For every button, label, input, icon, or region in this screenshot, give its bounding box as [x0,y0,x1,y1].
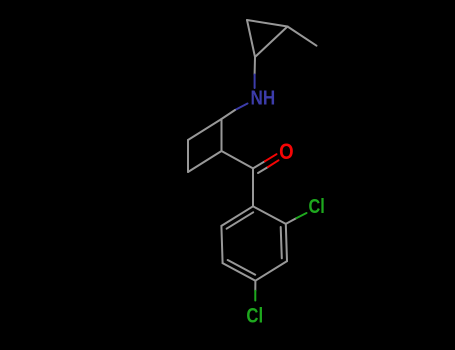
bond N-C1 (gray half) [254,57,256,75]
svg-text:O: O [279,139,294,164]
aromatic inner line A6-A1 [227,212,254,228]
svg-text:NH: NH [251,86,276,109]
bond A2-Cl1 (gray half) [286,218,297,224]
cyclobutane bond R2-R3 [187,140,189,172]
C7=O second line (gray half) [258,167,268,173]
benzene edge A4-A5 [223,263,256,281]
cyclobutane bond C6-R1 [221,119,223,151]
aromatic inner line A2-A3 [281,227,282,258]
svg-text:Cl: Cl [246,303,263,327]
benzene edge A1-A2 [253,206,286,224]
cyclobutane bond R1-R2 [188,119,222,140]
svg-text:Cl: Cl [309,195,325,218]
benzene edge A5-A6 [221,226,222,263]
bond A4-Cl2 (green half) [254,291,256,301]
cyclobutane bond R3-C6 [188,151,222,172]
C7=O main line (gray half) [253,161,265,168]
bond N-R1 (blue half) [235,104,248,111]
cyclopropane bond C2-C3 [247,20,288,27]
benzene edge A3-A4 [255,261,287,281]
bond C6-C7 [222,151,254,168]
bond A4-Cl2 (gray half) [254,281,256,291]
bond C7-A1 to benzene ring [252,168,254,206]
aromatic inner line A4-A5 [228,260,256,275]
cyclopropane bond C1-C2 [247,20,255,57]
C7=O main line (red half) [265,154,277,161]
C7=O second line (red half) [268,160,279,167]
bond N-R1 (gray half) [222,110,236,119]
bond N-C1 (blue half) [254,75,256,89]
bond A2-Cl1 (green half) [296,213,306,218]
bond C3-CH3 methyl [288,27,317,46]
cyclopropane bond C1-C3 [255,27,288,58]
benzene edge A6-A1 [221,206,253,226]
benzene edge A2-A3 [286,224,287,261]
